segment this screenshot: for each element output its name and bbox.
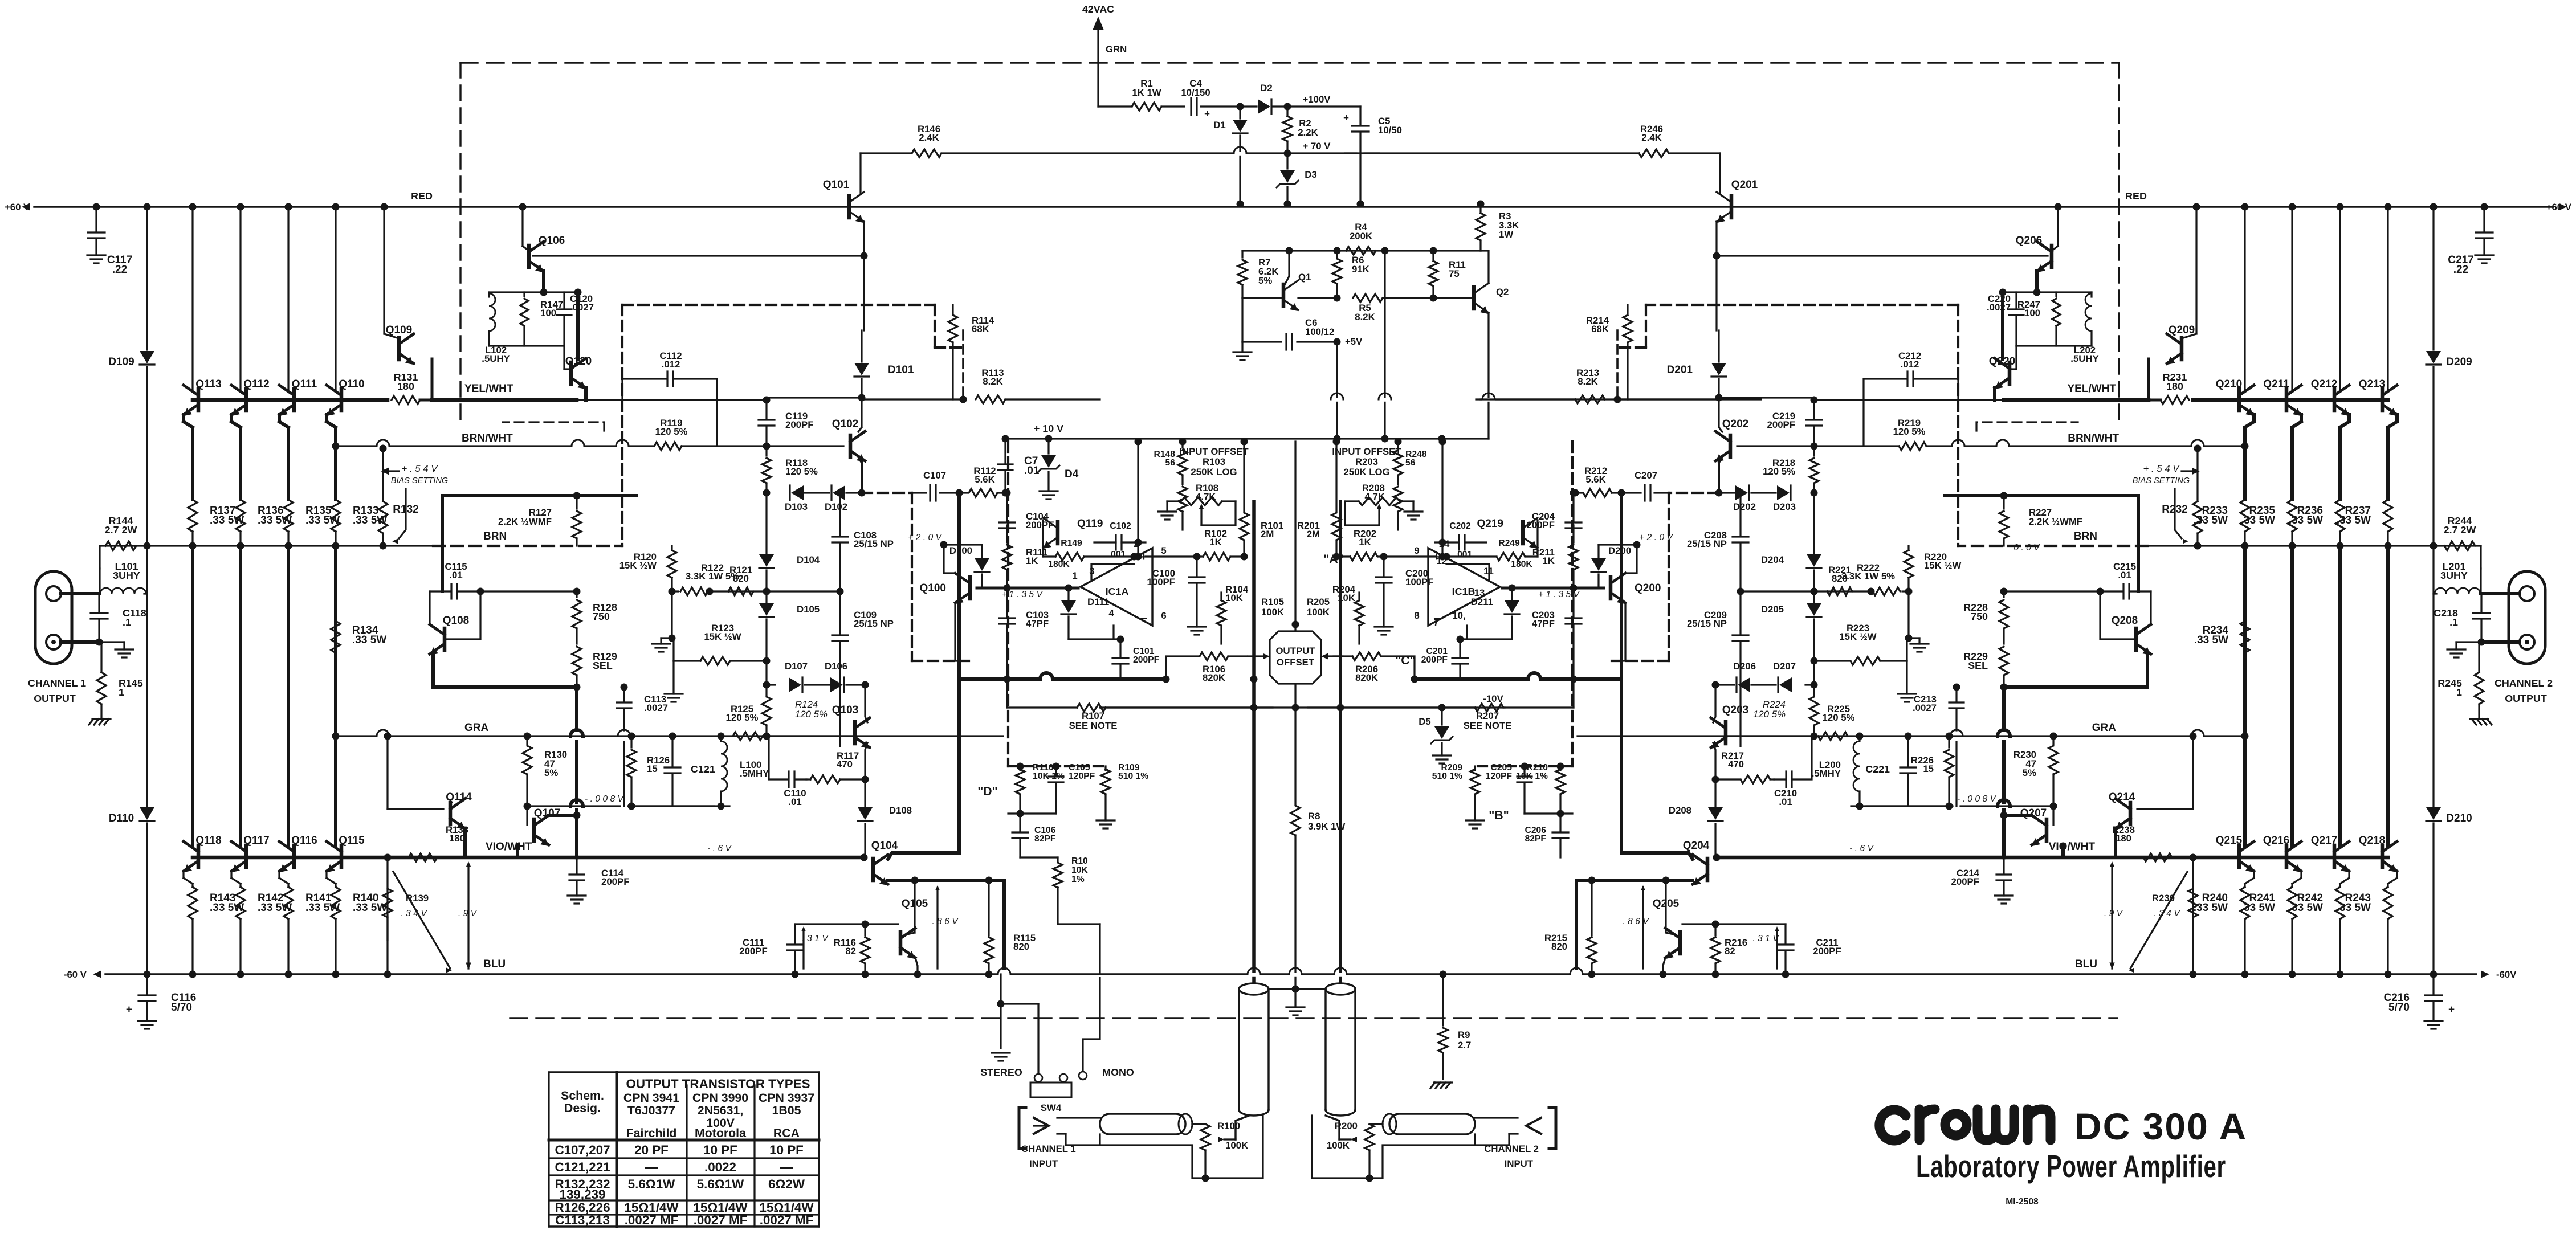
transistor Q214 (2129, 803, 2133, 824)
svg-text:"A": "A" (1323, 552, 1344, 566)
svg-text:200PF: 200PF (1026, 520, 1054, 530)
svg-text:200PF: 200PF (785, 419, 813, 430)
wire driver feed column (1715, 305, 1717, 330)
wire Q102 emitter (858, 457, 862, 463)
capacitor C113 .0027 (623, 687, 625, 701)
resistor R101 2M (1243, 442, 1245, 512)
wire emitter Q215 (2253, 871, 2255, 878)
svg-text:1W: 1W (1499, 229, 1513, 240)
svg-text:- . 6 V: - . 6 V (707, 844, 732, 853)
svg-text:120PF: 120PF (1486, 771, 1513, 781)
svg-text:.0027 MF: .0027 MF (625, 1213, 679, 1227)
capacitor C106 82PF (1019, 814, 1021, 831)
svg-text:DC 300 A: DC 300 A (2074, 1105, 2247, 1147)
svg-text:Q118: Q118 (195, 835, 221, 847)
svg-text:10,: 10, (1452, 610, 1465, 621)
svg-text:4: 4 (1108, 608, 1114, 619)
svg-text:2.2K ½WMF: 2.2K ½WMF (498, 516, 552, 527)
svg-text:C107: C107 (923, 470, 946, 481)
svg-text:2M: 2M (1261, 529, 1274, 540)
svg-text:470: 470 (1728, 759, 1744, 770)
svg-text:D4: D4 (1065, 468, 1079, 480)
svg-text:120 5%: 120 5% (726, 712, 759, 723)
svg-text:INPUT: INPUT (1505, 1158, 1534, 1169)
wire Q115 collector column (334, 546, 337, 845)
svg-text:D210: D210 (2446, 812, 2472, 824)
shielded cable CH1 (1239, 983, 1269, 995)
svg-text:7: 7 (1433, 617, 1438, 628)
resistor R208 4.7K (1393, 487, 1403, 512)
resistor R130 47 5% (526, 736, 528, 744)
svg-text:510 1%: 510 1% (1118, 771, 1148, 781)
resistor R216 82 (1714, 924, 1716, 935)
svg-text:D2: D2 (1260, 83, 1272, 93)
bias setting annotation +.54V (2192, 468, 2200, 475)
svg-text:.33 5W: .33 5W (2241, 902, 2275, 914)
svg-text:9: 9 (1414, 545, 1419, 556)
svg-text:+: + (1343, 112, 1349, 123)
center column verticals (1294, 442, 1296, 631)
svg-text:120 5%: 120 5% (655, 426, 688, 437)
svg-text:OUTPUT: OUTPUT (1276, 645, 1316, 656)
svg-text:2.7: 2.7 (1458, 1040, 1471, 1051)
svg-text:R103: R103 (1203, 456, 1225, 467)
svg-text:15K ½W: 15K ½W (1839, 631, 1876, 642)
svg-text:D100: D100 (949, 545, 972, 556)
svg-text:−: − (1140, 612, 1147, 625)
svg-text:10K: 10K (1225, 593, 1243, 603)
diode D202 (1751, 492, 1776, 493)
crown logo (1880, 1109, 2051, 1141)
svg-text:Q2: Q2 (1496, 287, 1509, 297)
wire Q208 emitter (2146, 653, 2149, 687)
wire driver feed column (863, 305, 865, 330)
diode D100 (981, 545, 983, 557)
dashed guard D node (1007, 442, 1009, 679)
svg-text:—: — (780, 1160, 793, 1174)
capacitor C119 200PF (765, 400, 767, 418)
resistor R128 750 (576, 591, 577, 597)
diode D104 (765, 493, 767, 553)
svg-text:5.6Ω1W: 5.6Ω1W (628, 1177, 676, 1191)
transistor Q213 (2381, 389, 2385, 411)
transistor Q204 (1717, 856, 2004, 860)
svg-text:120 5%: 120 5% (1753, 709, 1786, 720)
svg-text:D104: D104 (797, 554, 820, 565)
resistor R201 2M (1335, 442, 1337, 512)
capacitor C117 (95, 207, 97, 232)
resistor R1 1K 1W (1098, 105, 1132, 107)
svg-text:1: 1 (1072, 570, 1077, 581)
resistor R121 820 (728, 587, 753, 595)
emitter bus y523 (1298, 297, 1337, 299)
svg-text:15K ½W: 15K ½W (704, 631, 741, 642)
svg-text:.33 5W: .33 5W (2241, 514, 2275, 526)
svg-text:CPN 3990: CPN 3990 (692, 1091, 748, 1105)
-10V line (1100, 706, 1505, 708)
wire collector column Q210 (2241, 203, 2249, 211)
op-amp IC1B (1428, 548, 1500, 626)
svg-text:.001: .001 (1108, 550, 1126, 559)
transistor Q216 (2285, 845, 2289, 867)
resistor R112 5.6K (969, 489, 997, 497)
diodes D107 D106 line (765, 661, 767, 685)
svg-text:STEREO: STEREO (980, 1067, 1022, 1078)
svg-text:Q209: Q209 (2169, 324, 2195, 336)
diode D110 (146, 549, 148, 806)
dashed guard trace vertical (911, 493, 913, 661)
resistor R207 SEE NOTE (1503, 706, 1574, 708)
svg-text:1%: 1% (1071, 875, 1085, 884)
+70V rail (1236, 152, 1356, 154)
resistor R116 82 (864, 924, 866, 935)
phone plug CH2 (1389, 1114, 1475, 1134)
svg-text:56: 56 (1405, 458, 1416, 468)
svg-text:3UHY: 3UHY (2440, 570, 2468, 581)
resistor R249 180K (1497, 553, 1525, 561)
svg-text:Q105: Q105 (902, 898, 928, 910)
capacitor C112 .012 (622, 399, 767, 401)
svg-text:.012: .012 (662, 359, 680, 370)
resistor R10 10K 1% (1020, 856, 1058, 858)
dashed guard horizontal (622, 304, 935, 306)
transistor Q112 (244, 389, 248, 411)
svg-text:Q116: Q116 (291, 835, 317, 847)
transistor Q114 (449, 803, 453, 824)
svg-text:4.7K: 4.7K (1196, 491, 1216, 502)
resistor R242 .33 5W (2335, 887, 2345, 919)
resistor R145 1 (100, 642, 102, 672)
heavy column +10V tie (1135, 438, 1142, 446)
capacitor C203 47PF (1572, 588, 1574, 616)
svg-text:1K 1W: 1K 1W (1132, 87, 1161, 98)
svg-text:100K: 100K (1307, 607, 1330, 618)
svg-text:-60V: -60V (2496, 969, 2517, 980)
transistor Q218 (2381, 845, 2385, 867)
wire bias lower node (433, 685, 577, 689)
resistor R119 120 5% (654, 442, 682, 450)
inductor L100 .5MHY (720, 736, 722, 741)
resistor R228 750 (2003, 591, 2004, 597)
svg-text:+ . 5 4 V: + . 5 4 V (2143, 463, 2180, 474)
transistor Q103 (853, 722, 857, 743)
wire Q203 emitter (1713, 743, 1715, 779)
svg-text:C207: C207 (1635, 470, 1657, 481)
capacitor C116 electrolytic (146, 974, 148, 994)
svg-text:1: 1 (2456, 687, 2462, 698)
resistor R139 (386, 857, 388, 940)
svg-text:R139: R139 (406, 893, 429, 904)
wire R120 column (671, 546, 672, 549)
wire Q101 emitter link (863, 222, 865, 256)
regulator network wires (1242, 250, 1385, 251)
svg-text:20 PF: 20 PF (634, 1143, 669, 1157)
svg-text:D109: D109 (108, 356, 134, 368)
center columns to +10V (1336, 342, 1338, 439)
capacitor C5 10/50 (1359, 107, 1361, 124)
capacitor C220 .0027 (2015, 292, 2017, 308)
resistor R244 2.7 2W (2480, 546, 2481, 569)
svg-text:BLU: BLU (2075, 958, 2097, 970)
svg-text:R249: R249 (1498, 538, 1520, 548)
svg-text:D111: D111 (1087, 597, 1109, 607)
mono wire (1083, 978, 1100, 1071)
wire collector column Q112 (237, 203, 244, 211)
diodes D207 D206 line (1813, 661, 1815, 685)
svg-text:. 9 V: . 9 V (458, 909, 478, 918)
jack CHANNEL 2 OUTPUT (2509, 571, 2545, 664)
transistor Q202 (1737, 445, 1814, 447)
svg-text:D101: D101 (888, 364, 914, 376)
svg-text:.012: .012 (1901, 359, 1919, 370)
arrows into octagon (1263, 653, 1270, 660)
resistor R124 120 5% (765, 685, 767, 696)
R213 line right half (1476, 398, 1761, 400)
diode D105 (759, 603, 774, 616)
resistor R11 75 (1432, 251, 1434, 260)
wire Q104 emitter bus (888, 879, 1004, 882)
wire VIO/WHT bus (2004, 856, 2388, 860)
transistor Q1 (1282, 284, 1286, 306)
resistor R125 120 5% (733, 732, 763, 740)
input jack CHANNEL 1 (1019, 1108, 1026, 1149)
diode D101 (861, 330, 862, 362)
wire Q200 base feed (1625, 545, 1637, 573)
zener D5 (1441, 708, 1442, 725)
svg-text:SEL: SEL (593, 660, 613, 671)
svg-text:- . 0 0 8 V: - . 0 0 8 V (585, 794, 625, 804)
svg-text:Q119: Q119 (1077, 518, 1103, 530)
svg-text:2N5631,: 2N5631, (698, 1104, 744, 1117)
svg-text:"D": "D" (977, 785, 998, 798)
svg-text:+ 1 . 3 5 V: + 1 . 3 5 V (1538, 590, 1580, 599)
wire Q116 collector column (287, 546, 290, 845)
svg-text:15: 15 (1923, 763, 1934, 774)
transistor Q207 (2052, 806, 2054, 825)
svg-text:10 PF: 10 PF (769, 1143, 804, 1157)
svg-text:100K: 100K (1225, 1140, 1248, 1151)
svg-text:Q101: Q101 (823, 179, 850, 191)
svg-text:180: 180 (449, 833, 465, 844)
svg-text:120 5%: 120 5% (1893, 426, 1926, 437)
wire Q106 collector rail link (523, 246, 529, 251)
svg-text:Q200: Q200 (1635, 582, 1661, 594)
capacitor C210 .01 (1793, 736, 1812, 779)
svg-text:Q104: Q104 (871, 840, 898, 852)
resistor R214 68K (1627, 305, 1628, 314)
capacitor C215 .01 (2130, 590, 2151, 592)
svg-text:D3: D3 (1305, 169, 1316, 180)
resistor R108 4.7K (1178, 487, 1187, 512)
resistor R5 8.2K (1353, 294, 1383, 302)
resistor R138 180 (409, 853, 437, 861)
resistor R114 68K (952, 305, 953, 314)
wire Q100 base feed (944, 545, 955, 573)
svg-text:12: 12 (1437, 555, 1448, 566)
svg-text:2.7 2W: 2.7 2W (105, 524, 137, 536)
capacitor C214 200PF (2003, 857, 2004, 873)
svg-text:4.7K: 4.7K (1365, 491, 1385, 502)
capacitor C211 200PF (1784, 924, 1786, 943)
svg-text:. 3 1 V: . 3 1 V (1752, 934, 1779, 943)
svg-text:Desig.: Desig. (564, 1101, 601, 1115)
capacitor C120 .0027 (563, 292, 565, 308)
svg-text:200PF: 200PF (1527, 520, 1555, 530)
resistor R224 120 5% (1813, 685, 1815, 696)
svg-text:100: 100 (540, 308, 556, 318)
diode D201 (1718, 330, 1719, 362)
svg-text:5.6K: 5.6K (975, 474, 994, 485)
output transistor types table (549, 1072, 819, 1227)
main shield columns (1252, 501, 1256, 982)
svg-text:D5: D5 (1419, 716, 1430, 727)
input jack CHANNEL 2 (1549, 1108, 1556, 1149)
svg-text:.33 5W: .33 5W (2194, 634, 2228, 646)
pot R100 bottom to ground bus (1205, 1116, 1263, 1178)
resistor R123 15K half W (672, 638, 674, 661)
dashed guard via C107 (962, 330, 964, 399)
wire collector column Q113 (189, 203, 197, 211)
wire jack lower to R145 (61, 640, 99, 644)
capacitor C107 (929, 485, 931, 501)
svg-text:. 3 1 V: . 3 1 V (802, 934, 829, 943)
svg-text:47PF: 47PF (1026, 618, 1049, 629)
diode D2 (1258, 99, 1270, 114)
svg-text:Q110: Q110 (339, 378, 364, 390)
resistor R237 .33 5W (2383, 500, 2392, 532)
diode D208 (1708, 807, 1723, 820)
wire Q202 emitter (1719, 457, 1722, 463)
resistor R245 1 (2478, 642, 2480, 672)
capacitor C201 200PF (1459, 639, 1461, 656)
svg-text:BRN/WHT: BRN/WHT (2068, 432, 2119, 444)
svg-text:INPUT OFFSET: INPUT OFFSET (1332, 446, 1401, 457)
wire emitter Q110 (325, 415, 328, 422)
svg-text:56: 56 (1165, 458, 1176, 468)
svg-text:68K: 68K (972, 324, 989, 334)
inductor L201 3UHY (2435, 588, 2480, 594)
annotation .86V (1642, 889, 1644, 969)
resistor R221 820 (1827, 587, 1852, 595)
+100V node (1287, 105, 1360, 107)
wire Q207 emitter to VIO/WHT (2061, 845, 2065, 857)
resistor R222 3.3K 1W 5% (1902, 590, 1909, 592)
svg-text:15: 15 (647, 763, 658, 774)
transistor Q215 (2237, 845, 2241, 867)
wire bias node (442, 494, 636, 497)
svg-text:.0027: .0027 (570, 302, 594, 313)
capacitor C200 100PF (1383, 557, 1384, 575)
svg-text:120 5%: 120 5% (785, 466, 818, 477)
resistor R132 (382, 448, 384, 501)
svg-text:MONO: MONO (1102, 1067, 1134, 1078)
svg-text:IC1A: IC1A (1106, 586, 1129, 597)
resistor R247 100 (2055, 292, 2057, 296)
svg-text:D201: D201 (1667, 364, 1693, 376)
svg-text:82PF: 82PF (1525, 834, 1547, 844)
wire R220 column (1907, 546, 1909, 549)
resistor R142 .33 5W (236, 887, 245, 919)
transistor Q200 (1609, 577, 1613, 599)
resistor R246 2.4K (1669, 152, 1720, 154)
svg-text:Q109: Q109 (386, 324, 412, 336)
svg-text:.33 5W: .33 5W (210, 902, 244, 914)
transistor Q201 (1730, 196, 1734, 218)
svg-text:SEL: SEL (1968, 660, 1988, 671)
diode D111 (1067, 588, 1069, 599)
svg-text:15K ½W: 15K ½W (619, 560, 657, 571)
shielded cable CH2 (1326, 983, 1355, 995)
wire emitter Q213 (2395, 415, 2399, 422)
capacitor C207 (1649, 485, 1651, 501)
svg-text:.01: .01 (2118, 570, 2131, 581)
transistor Q2 (1472, 287, 1476, 309)
svg-text:Q103: Q103 (832, 704, 858, 716)
resistor R209 510 1% (1474, 766, 1476, 770)
svg-text:82: 82 (1725, 946, 1735, 957)
svg-text:.1: .1 (123, 616, 131, 628)
wire Q105 collector (914, 880, 915, 933)
svg-text:D208: D208 (1669, 805, 1691, 816)
svg-text:D108: D108 (889, 805, 912, 816)
resistor R115 820 (988, 880, 989, 935)
resistor R143 .33 5W (188, 887, 197, 919)
svg-text:.33 5W: .33 5W (305, 514, 340, 526)
svg-text:RED: RED (411, 190, 433, 202)
svg-text:200PF: 200PF (1813, 946, 1841, 957)
svg-text:D200: D200 (1608, 545, 1631, 556)
wire Q206 emitter (2035, 271, 2039, 292)
svg-text:Q215: Q215 (2216, 835, 2243, 847)
wire Q106 emitter (542, 271, 545, 292)
annotation .31V (802, 930, 804, 969)
resistor R231 180 (2161, 396, 2189, 404)
svg-text:IC1B: IC1B (1452, 586, 1476, 597)
wire Q118 collector column (191, 546, 194, 845)
svg-text:GRN: GRN (1106, 44, 1127, 55)
svg-text:R205: R205 (1307, 597, 1330, 607)
capacitor C217 (2483, 207, 2485, 232)
wire Q101 emitter column down (863, 256, 865, 305)
transistor Q105 (899, 932, 903, 954)
diode D205 (1807, 603, 1821, 616)
resistor R126 15 (630, 736, 632, 747)
svg-text:820: 820 (1551, 941, 1567, 952)
svg-text:25/15 NP: 25/15 NP (854, 538, 894, 549)
wire jack to L201 (2481, 592, 2520, 595)
wire Q204 collector from driver column (1621, 849, 1693, 859)
svg-text:OFFSET: OFFSET (1277, 657, 1315, 668)
wire Q205 base bus (1682, 923, 1786, 925)
resistor R140 .33 5W (331, 887, 340, 919)
resistor R239 (2192, 857, 2194, 940)
resistor R122 3.3K 1W 5% (672, 590, 678, 592)
left labels (5, 124, 2572, 1016)
svg-text:10K 1%: 10K 1% (1516, 771, 1548, 781)
capacitor C101 200PF (1119, 639, 1121, 656)
capacitor C6 100/12 (1241, 298, 1243, 342)
left channel graphics (35, 149, 1273, 1029)
svg-text:1K: 1K (1359, 537, 1371, 548)
svg-text:Q204: Q204 (1683, 840, 1710, 852)
diode D102 (805, 492, 829, 493)
transistor Q210 (2237, 389, 2241, 411)
svg-text:C121,221: C121,221 (555, 1160, 610, 1174)
svg-text:+100V: +100V (1303, 94, 1331, 105)
resistor R137 .33 5W (188, 500, 197, 532)
dashed guard D node (1571, 442, 1574, 679)
wire emitter Q218 (2396, 871, 2398, 878)
